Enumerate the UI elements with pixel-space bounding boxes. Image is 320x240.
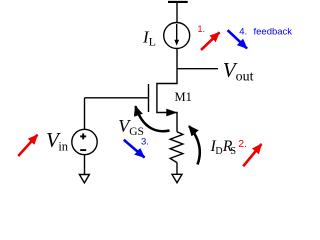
svg-text:D: D xyxy=(215,146,222,157)
svg-text:feedback: feedback xyxy=(254,27,293,38)
svg-text:S: S xyxy=(230,146,236,157)
svg-text:3.: 3. xyxy=(141,136,149,147)
svg-text:4.: 4. xyxy=(239,27,247,38)
svg-text:2.: 2. xyxy=(238,138,247,150)
svg-text:M1: M1 xyxy=(175,90,192,104)
svg-text:Vout: Vout xyxy=(223,58,254,85)
svg-text:IL: IL xyxy=(142,28,156,49)
svg-text:VGS: VGS xyxy=(118,116,144,138)
svg-text:Vin: Vin xyxy=(46,128,69,153)
svg-text:1.: 1. xyxy=(198,24,206,34)
